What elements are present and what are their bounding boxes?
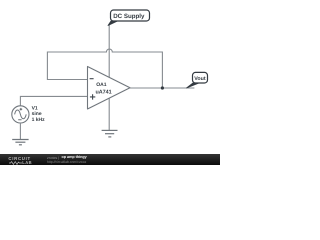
svg-text:DC Supply: DC Supply — [113, 13, 145, 20]
op-amp OA1 triangle body — [88, 67, 131, 110]
wire op-amp output to Vout — [130, 87, 194, 89]
footer circuit title — [47, 156, 59, 160]
op-amp OA1 non-inverting input marker — [90, 94, 95, 99]
wire feedback: output node up, across (hop over supply wire), down to inverting input — [47, 49, 162, 88]
voltage source V1 — [12, 106, 29, 123]
V1 polarity marks — [18, 108, 22, 120]
svg-text:Vout: Vout — [194, 76, 206, 82]
V1 sine waveform glyph — [15, 110, 27, 119]
wire V1 plus terminal to op-amp non-inverting input — [20, 96, 87, 105]
ground below V1 — [12, 140, 28, 145]
svg-text:1 kHz: 1 kHz — [32, 117, 46, 123]
svg-text:sine: sine — [32, 111, 42, 117]
op-amp OA1 — [88, 67, 131, 110]
op-amp OA1 inverting input marker — [90, 78, 94, 80]
footer url — [47, 160, 86, 164]
flag DC Supply — [108, 10, 150, 26]
svg-text:OA1: OA1 — [96, 82, 107, 88]
wire DC supply flag down to op-amp V+ pin — [108, 25, 110, 78]
flag Vout — [187, 72, 208, 88]
wire op-amp V- pin down to ground — [108, 98, 110, 130]
ground below op-amp — [102, 130, 118, 137]
node output junction — [161, 86, 164, 89]
footer bar — [0, 154, 220, 165]
V1 value labels — [32, 106, 46, 124]
CircuitLab logo — [8, 156, 30, 161]
wire V1 minus terminal to ground — [19, 123, 21, 140]
svg-text:uA741: uA741 — [96, 89, 112, 95]
V1 circle body — [12, 106, 29, 123]
